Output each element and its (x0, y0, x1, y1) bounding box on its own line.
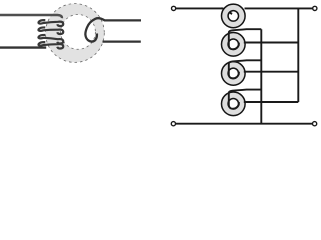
wire: hook feeding bead B4 and single turn through its window (229, 90, 261, 109)
wire: entry chain vertical (260, 29, 262, 124)
wire: top conductor, bead B1 to right terminal (245, 7, 313, 9)
toroid core T1 (pictorial, left figure) (46, 4, 105, 63)
ferrite bead B1 (222, 4, 246, 28)
terminal: output bottom-right (313, 122, 317, 126)
winding turn 4 (38, 42, 63, 48)
wire: exit of bead B2 to right bus (244, 42, 298, 44)
ferrite bead B2 (222, 32, 246, 56)
winding turn 2 (38, 27, 63, 34)
wire: bottom-left lead of winding (0, 46, 46, 48)
wire: entry dive of top conductor into bead B1 window (222, 8, 233, 14)
wire: top conductor, left terminal to bead B1 (176, 7, 222, 9)
terminal: output top-right (313, 6, 317, 10)
wire: top-left lead of winding (0, 15, 62, 18)
ferrite bead B4 (222, 92, 246, 116)
wire: exit of bead B4 to right bus (244, 101, 298, 103)
winding turn 3 (38, 35, 63, 44)
wire: hook feeding bead B2 and single turn through its window (229, 29, 261, 49)
wire: exit of bead B3 to right bus (244, 71, 298, 73)
ferrite bead B3 (222, 62, 246, 86)
terminal: input bottom-left (171, 122, 175, 126)
winding turn 1 (38, 20, 63, 26)
wire: top-right lead with hook through core window (85, 18, 141, 41)
wire: bottom-right lead emerging behind core (103, 40, 141, 42)
terminal: input top-left (172, 6, 176, 10)
wire: bottom conductor (176, 123, 313, 125)
wire: hook feeding bead B3 and single turn through its window (229, 60, 261, 78)
wire: right bus vertical (297, 8, 299, 102)
